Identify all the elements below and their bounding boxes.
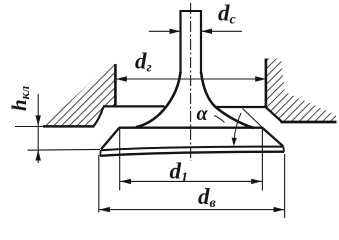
d_в extension line right xyxy=(284,154,286,218)
angle alpha arc with arrow xyxy=(234,113,241,141)
right wall seat chamfer xyxy=(265,107,281,122)
d_в extension line left xyxy=(98,155,100,213)
dim h_кл arrow lower (points up) xyxy=(36,150,41,161)
centerline (valve axis, dash-dot) xyxy=(190,3,192,161)
right wall hatching xyxy=(266,59,336,122)
dim d_в line xyxy=(99,209,284,211)
valve face chamfer right xyxy=(262,128,283,147)
right wall inner edge xyxy=(265,59,268,108)
left wall inner bottom / port far-side line left xyxy=(103,105,165,107)
port far-side line right xyxy=(216,106,267,108)
dim h_кл arrow upper (points down) xyxy=(36,115,41,126)
right wall bottom edge xyxy=(281,121,337,124)
h_кл upper extension line xyxy=(15,126,44,128)
dim d_c arrow left xyxy=(170,29,181,34)
valve rim left edge xyxy=(99,150,101,156)
valve face chamfer left xyxy=(101,128,120,150)
valve left fillet xyxy=(136,72,181,127)
valve bottom face xyxy=(100,152,284,156)
d1 extension line left xyxy=(119,128,121,191)
valve rim top line xyxy=(101,147,283,151)
dim d_c line right xyxy=(202,30,243,32)
valve flange top face xyxy=(119,127,263,129)
valve stem left edge xyxy=(179,11,181,74)
valve stem top cap xyxy=(180,10,203,12)
svg-text:dс: dс xyxy=(218,1,237,28)
angle alpha leader from label xyxy=(214,116,225,123)
dim d1 line xyxy=(120,180,262,182)
angle alpha arrowhead xyxy=(232,138,237,146)
dim h_кл vertical line xyxy=(37,94,39,163)
dim d_г line xyxy=(116,78,266,80)
dim d_c arrow right xyxy=(201,29,212,34)
dim d_c line left xyxy=(149,30,180,32)
svg-text:α: α xyxy=(197,103,209,125)
h_кл lower extension line xyxy=(28,148,101,151)
dim d_г arrow left xyxy=(116,76,127,81)
valve stem right edge xyxy=(200,11,202,74)
left wall inner edge xyxy=(114,64,117,107)
svg-text:dг: dг xyxy=(135,49,152,76)
d1 extension line right xyxy=(261,128,263,191)
svg-text:d1: d1 xyxy=(170,159,189,186)
svg-text:dв: dв xyxy=(198,184,217,211)
angle alpha face extension line xyxy=(243,109,283,147)
dim d1 arrow right xyxy=(251,179,262,184)
svg-text:hкл: hкл xyxy=(7,85,32,111)
left wall hatching xyxy=(43,59,115,126)
valve right fillet xyxy=(201,72,254,128)
left wall step curve xyxy=(94,107,104,127)
dim d_г arrow right xyxy=(255,76,266,81)
dim d_в arrow right xyxy=(274,207,285,212)
dim d_в arrow left xyxy=(99,207,110,212)
valve rim right edge xyxy=(282,147,285,152)
dim d1 arrow left xyxy=(120,179,131,184)
left wall outer bottom edge xyxy=(43,125,94,128)
